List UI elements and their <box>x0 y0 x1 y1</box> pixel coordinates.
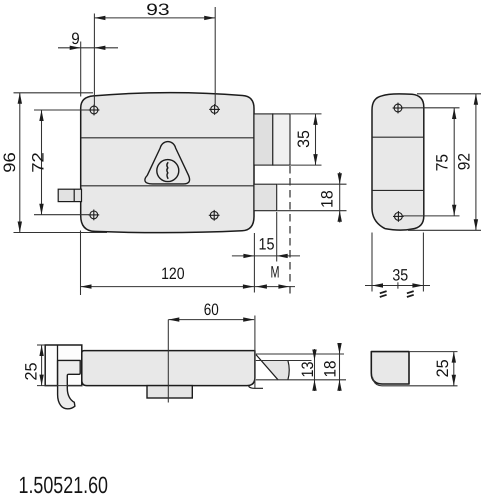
ext 72 top <box>34 109 89 111</box>
svg-text:18: 18 <box>318 190 336 208</box>
cylinder escutcheon (rounded triangle) <box>145 142 190 184</box>
strip divider <box>57 345 59 386</box>
strike band lower <box>372 189 423 191</box>
strike screw top <box>393 103 404 114</box>
svg-text:92: 92 <box>456 153 474 170</box>
dim 35 strike line <box>365 285 430 287</box>
svg-text:M: M <box>271 264 280 282</box>
60 arrows (inside) <box>168 317 179 321</box>
svg-text:13: 13 <box>299 362 317 378</box>
ext 25 top right <box>409 351 458 353</box>
75 arrows <box>452 108 456 119</box>
ext line 9 left <box>80 42 82 97</box>
tab under slab <box>147 386 192 398</box>
ext 18 bottom <box>277 210 346 212</box>
ext 92 top <box>417 93 481 95</box>
strike dimensions <box>365 94 481 292</box>
case slab <box>82 351 255 386</box>
35 arrows (inside) <box>313 114 317 125</box>
latch plan outline lines <box>256 355 289 380</box>
keyhole <box>167 162 168 179</box>
ext 120 right / 15 left (body right edge) <box>253 233 255 293</box>
ext 92 bottom <box>408 229 481 231</box>
screw hole top-right <box>209 104 220 115</box>
dim 92 line <box>475 94 477 231</box>
ext 18 top <box>277 183 346 185</box>
ext 35 left <box>371 233 373 292</box>
plan dims <box>37 316 346 403</box>
15 arrows (outside) <box>243 254 254 258</box>
M arrows <box>256 284 267 288</box>
dim 35 latch line <box>315 114 317 165</box>
cylinder circle <box>157 160 179 182</box>
dim 96 line <box>19 93 21 233</box>
band line upper <box>81 137 253 139</box>
ext 35 top <box>291 113 322 115</box>
faceplate lip under slab corner <box>249 386 264 388</box>
latch top / ext 13 <box>256 360 312 362</box>
dim 75 line <box>453 108 455 216</box>
bevel diagonal <box>256 355 278 380</box>
latch bolt (front view, right) <box>254 114 290 165</box>
svg-text:120: 120 <box>161 265 185 283</box>
ext 35 right <box>422 233 424 292</box>
dim 13 line <box>314 349 316 391</box>
svg-text:25: 25 <box>434 359 452 377</box>
hook piece <box>58 360 81 408</box>
dim 9 line <box>58 47 118 49</box>
screw hole bottom-left <box>88 210 99 221</box>
center tick <box>397 282 399 288</box>
120 arrows (inside) <box>81 284 92 288</box>
ext lines 93 <box>93 14 95 107</box>
9 arrows (outside) <box>70 46 81 50</box>
18 plan arrows (outside) <box>337 343 341 354</box>
svg-text:96: 96 <box>1 152 19 173</box>
ext 96 top <box>14 92 94 94</box>
dim 18 bolt line <box>339 172 341 223</box>
svg-text:25: 25 <box>23 363 41 381</box>
svg-text:60: 60 <box>204 301 219 319</box>
strike plan bottom shadow <box>373 378 458 386</box>
latch bottom / common ext <box>256 379 346 381</box>
approx-equal marks <box>380 291 414 297</box>
ext 60 right <box>254 316 256 390</box>
svg-text:9: 9 <box>71 30 80 48</box>
ext 96 bottom <box>14 232 108 234</box>
strike screw bottom <box>393 211 404 222</box>
dim 15 line <box>232 255 300 257</box>
center dashed line through latch <box>289 166 291 294</box>
ext 35 bottom <box>291 164 322 166</box>
25 left arrows (inside) <box>39 345 43 356</box>
dim 25 right line <box>453 352 455 386</box>
cylinder center line <box>167 320 169 403</box>
ext 75 bottom <box>402 215 459 217</box>
96 arrows (inside) <box>18 93 22 104</box>
svg-text:93: 93 <box>146 1 170 19</box>
svg-text:15: 15 <box>259 236 275 254</box>
bottom line through <box>37 385 83 387</box>
ext 18top <box>256 353 344 355</box>
strike plan dims <box>409 352 458 386</box>
strike plan body <box>371 352 409 384</box>
latch arc end <box>288 361 289 380</box>
dim 72 line <box>41 110 43 215</box>
svg-text:35: 35 <box>392 266 408 284</box>
93 arrows (inside) <box>94 16 105 20</box>
screw hole bottom-right <box>209 210 220 221</box>
band line lower <box>81 185 253 187</box>
dim 25 left line <box>41 345 43 386</box>
svg-text:75: 75 <box>434 154 452 171</box>
ext 120 left <box>80 231 82 296</box>
left tab (hook front view) <box>58 189 81 201</box>
lock body case <box>81 93 254 233</box>
strike plate body <box>372 94 424 230</box>
deadbolt (front view, right lower) <box>254 184 277 211</box>
13 arrows (outside) <box>312 350 316 361</box>
arrowheads front view <box>18 16 342 289</box>
svg-text:1.50521.60: 1.50521.60 <box>19 472 109 498</box>
screw hole top-left <box>89 105 100 116</box>
svg-text:18: 18 <box>321 361 339 378</box>
ext 25 top <box>37 344 45 346</box>
ext 72 bottom <box>34 214 89 216</box>
ext 15 right (bolt edge) <box>276 212 278 262</box>
strike band upper <box>372 136 423 138</box>
92 arrows <box>474 94 478 105</box>
35 strike arrows <box>372 283 383 287</box>
svg-text:35: 35 <box>295 130 313 148</box>
72 arrows (inside) <box>39 110 43 121</box>
svg-text:72: 72 <box>30 152 48 173</box>
latch plan gray body <box>261 361 290 380</box>
back plate tab <box>45 345 82 386</box>
dim 93 line <box>94 17 215 19</box>
dim 18 plan line <box>339 343 341 391</box>
dim 60 line <box>168 319 254 321</box>
dim 120 / M common line <box>81 286 296 288</box>
18 arrows (outside) <box>338 173 342 184</box>
ext 75 top <box>402 107 460 109</box>
